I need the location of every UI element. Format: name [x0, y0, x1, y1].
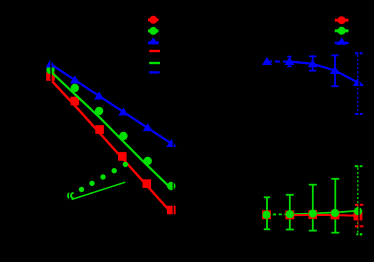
blue dashed segment t1-t2 [267, 61, 290, 63]
legend row 3: blue line + triangle [148, 41, 159, 44]
right legend row 1: red line + circle [335, 19, 349, 22]
red error bar r5 [358, 205, 360, 227]
green fit line (left panel) [51, 72, 172, 190]
red square marker S6 [167, 206, 176, 215]
right legend row 2: green line + circle [335, 29, 349, 32]
red square marker R4 [331, 211, 340, 220]
small dotted green series: left-caret end marker [68, 193, 69, 198]
legend row 1: red line + circle [148, 18, 159, 21]
green circle marker C4 [119, 132, 127, 140]
red square marker S5 [143, 179, 152, 188]
legend row 6: blue line [149, 71, 159, 73]
green circle marker G1 [262, 211, 270, 219]
thin green line under dotted series [72, 182, 126, 199]
blue error bar t4 [334, 55, 336, 86]
blue triangle marker U5 [353, 78, 363, 86]
green circle marker C1 [46, 66, 54, 74]
legend row 5: green line [149, 62, 160, 64]
blue error bar t3 [312, 56, 314, 70]
left panel left spine (black, overdraws markers) [50, 8, 51, 230]
small green dot d4 [112, 168, 117, 173]
red square marker S2 [71, 97, 80, 106]
red solid connecting line (lower series) [290, 214, 358, 217]
blue triangle marker T6 [166, 139, 176, 147]
blue triangle marker U3 [308, 59, 318, 67]
green circle marker G5 [354, 207, 362, 215]
blue triangle marker U4 [330, 66, 340, 74]
green error bar g3 [312, 185, 314, 231]
red square marker S4 [118, 152, 127, 161]
small green dot d3 [100, 174, 105, 179]
right panel right spine (black, overdraws markers and caps) [358, 8, 359, 244]
blue solid polyline t2-t5 [290, 62, 364, 86]
blue error bar t2 (small) [289, 57, 291, 67]
red square marker R2 [285, 211, 294, 220]
left panel right spine (black, overdraws markers) [173, 8, 174, 230]
green circle marker G4 [331, 209, 339, 217]
green dashed connecting segment p1-p2 (lower series) [267, 213, 290, 215]
green circle marker C2 [71, 84, 79, 92]
green solid connecting line p2-p5 (lower series) [290, 211, 357, 214]
blue triangle marker T1 [46, 60, 56, 68]
blue fit line (left panel) [51, 64, 172, 144]
green circle marker G3 [309, 209, 317, 217]
blue triangle marker U1 [262, 57, 272, 65]
green circle marker C3 [95, 107, 103, 115]
right legend row 3: blue line + triangle [335, 42, 349, 44]
red square marker S3 [95, 125, 104, 134]
blue triangle marker T2 [70, 76, 80, 84]
green dashed error bar g5 [357, 168, 359, 234]
red fit line (left panel) [51, 80, 172, 214]
legend row 4: red line [149, 50, 160, 52]
green error bar g4 [334, 179, 336, 233]
red square marker R3 [308, 210, 317, 219]
green error bar g2 [289, 195, 291, 230]
blue triangle marker T3 [94, 92, 104, 100]
blue triangle marker U2 [285, 57, 295, 65]
green error bar g1 [266, 197, 268, 229]
blue triangle marker T4 [118, 108, 128, 116]
green circle marker G2 [286, 210, 294, 218]
red square marker R1 [262, 210, 271, 219]
small green dot d5 [123, 162, 128, 167]
green circle marker C5 [144, 157, 152, 165]
blue triangle marker T5 [143, 123, 153, 131]
blue dashed error bar t5 [357, 55, 359, 114]
small green dot d1 [79, 187, 84, 192]
legend row 2: green line + circle [148, 29, 159, 32]
green circle marker C6 [167, 182, 175, 190]
red square marker S1 [46, 72, 55, 81]
small green dot d2 [89, 181, 94, 186]
red square marker R5 [354, 212, 363, 221]
